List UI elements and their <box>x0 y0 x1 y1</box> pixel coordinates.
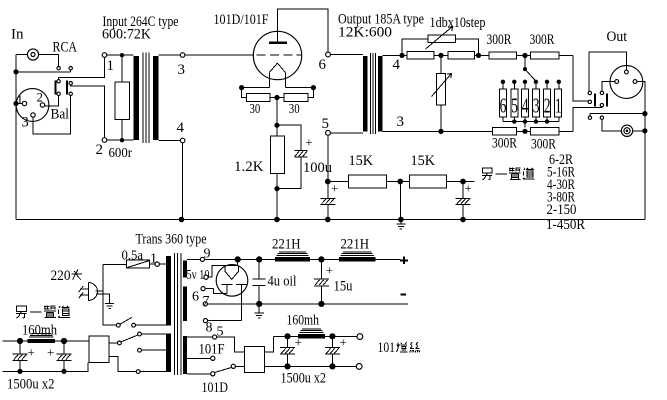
label impedance 3-80R <box>547 190 575 206</box>
wire S1 f to XLR pin3 <box>33 96 71 135</box>
label 30 left <box>250 102 261 117</box>
resistor tap R6 <box>499 89 506 117</box>
junction B+ node pin5 <box>325 179 331 185</box>
switch S1 contact d <box>69 82 72 85</box>
svg-text:300R: 300R <box>487 32 512 48</box>
svg-text:+: + <box>47 345 54 360</box>
wire plug to mains switch <box>103 291 117 325</box>
label T1 Input 264C type <box>103 14 179 30</box>
resistor hum balance 30 left <box>246 94 270 102</box>
resistor tap R5 <box>511 89 518 117</box>
label 15K right <box>411 153 436 169</box>
label T2 pin3 <box>397 114 405 130</box>
wire T1 pin3 to V1 grid <box>185 54 254 56</box>
wire PT pin9 <box>187 258 200 260</box>
junction 300R bottom mid <box>522 129 527 134</box>
PT bottom tap terminal <box>211 372 215 376</box>
label T1 pin1 <box>107 58 115 74</box>
PT pin10 terminal <box>204 275 208 279</box>
svg-text:Bal: Bal <box>51 107 70 123</box>
switch S1 contact f <box>69 92 72 95</box>
tap stubs <box>503 82 559 89</box>
junction C9 bottom <box>61 369 66 374</box>
svg-text:1dbx10step: 1dbx10step <box>430 15 486 31</box>
svg-text:300R: 300R <box>531 137 556 153</box>
transformer PT core <box>174 253 180 375</box>
wire B+ out <box>375 258 400 260</box>
switch S3 contact b <box>600 116 603 119</box>
junction 600r bottom <box>120 138 124 142</box>
wire J3 right pin to right rail <box>637 82 645 220</box>
label 101 filament <box>378 340 420 356</box>
label other channel mid <box>482 168 534 180</box>
svg-text:221H: 221H <box>341 237 370 253</box>
wire bypass top <box>402 39 479 56</box>
label PT pin7 <box>203 294 210 309</box>
T1 pin4 terminal <box>180 138 185 143</box>
transformer PT secondary HV winding <box>183 287 187 322</box>
wire filament left to R hum1 <box>242 88 247 98</box>
PT pin5 terminal <box>213 335 217 339</box>
svg-text:101: 101 <box>378 340 396 356</box>
svg-text:+: + <box>340 335 347 350</box>
label impedance 5-16R <box>547 165 575 181</box>
label 300R top-left <box>487 32 512 48</box>
svg-text:30: 30 <box>250 102 261 117</box>
label other channel bottom <box>16 306 70 319</box>
junction mid series <box>438 53 443 58</box>
junction attenuator out top <box>476 53 481 58</box>
svg-text:600:72K: 600:72K <box>102 27 151 43</box>
wire 0V rail <box>207 303 407 305</box>
PT pin6 terminal <box>201 287 205 291</box>
junction C6 bottom <box>284 363 290 369</box>
label J2 pin1 <box>17 92 24 107</box>
wire T1 pin2 to primary <box>107 139 134 141</box>
choke L2 221H <box>339 252 375 262</box>
label impedance 2-150 <box>547 202 577 218</box>
label + C8 <box>28 345 35 360</box>
junction hum center <box>274 95 279 100</box>
svg-text:12K:600: 12K:600 <box>338 25 392 41</box>
svg-text:In: In <box>11 27 24 43</box>
svg-text:1500u x2: 1500u x2 <box>7 377 55 393</box>
wire fil plus rail <box>288 335 358 337</box>
wire to C cathode 100u <box>277 125 301 150</box>
label PT pin6 <box>192 290 199 305</box>
fuse F1 0.5a <box>103 260 155 268</box>
svg-text:6: 6 <box>192 290 199 305</box>
resistor tap R4 <box>522 89 529 117</box>
switch S5 tap select blade <box>215 367 232 372</box>
junction C5 bottom <box>318 301 324 307</box>
svg-text:2: 2 <box>37 90 44 105</box>
switch S2 contact d <box>600 91 603 94</box>
wire tap bus to bottom row <box>524 122 526 128</box>
wire RCA to switch S1 <box>39 55 59 67</box>
wire 15K mid <box>386 181 409 183</box>
junction bus C3 <box>460 217 466 223</box>
label 160mh left <box>22 323 58 339</box>
wire PT bottom tap <box>187 373 211 375</box>
transformer PT secondary 5v winding <box>183 261 187 278</box>
junction cathode node <box>274 123 279 128</box>
label RCA <box>53 40 78 56</box>
terminal aux bottom <box>136 370 140 374</box>
PT pin9 terminal <box>200 257 204 261</box>
wire B+ rail <box>205 258 276 260</box>
svg-text:1: 1 <box>150 252 157 267</box>
wire BR2 minus rail <box>3 363 88 372</box>
transformer T1 core <box>143 53 149 144</box>
connector J2 XLR balanced input <box>16 89 49 122</box>
transformer T1 primary winding <box>134 56 140 140</box>
label B+ plus <box>400 257 408 265</box>
wire T1 pin4 to ground bus <box>182 143 184 220</box>
svg-text:2: 2 <box>544 93 551 117</box>
junction attenuator in top <box>399 53 404 58</box>
capacitor C8 1500u <box>13 341 28 371</box>
wire 15K left drop <box>399 182 401 220</box>
label PT pin9 <box>204 247 211 262</box>
label T2 Output 185A type <box>338 12 424 28</box>
label 101D <box>202 380 229 396</box>
label 100u <box>303 160 332 176</box>
V2 filament shield <box>225 259 239 279</box>
wire BR2 in top <box>109 342 118 344</box>
wire hum center down <box>276 98 278 126</box>
capacitor C7 1500u <box>325 336 340 366</box>
wire V2 plate right to pin8 <box>208 320 242 322</box>
svg-text:1: 1 <box>107 58 115 74</box>
junction C6 top <box>284 333 290 339</box>
switch S1 contact c <box>57 80 60 83</box>
wire 300R bottom-right out <box>559 130 573 132</box>
svg-text:300R: 300R <box>530 32 555 48</box>
J3 pin top <box>625 70 629 74</box>
wire filament bar left <box>242 87 270 89</box>
label impedance 1-450R <box>546 217 585 233</box>
V2 plate right <box>236 284 247 320</box>
PT pin8 terminal <box>203 319 207 323</box>
svg-text:101F: 101F <box>199 342 225 358</box>
svg-text:+: + <box>305 134 312 149</box>
wire filament right to R hum2 <box>308 88 314 98</box>
svg-text:RCA: RCA <box>53 40 78 56</box>
wire J4 to right rail <box>633 130 645 132</box>
resistor Ra series <box>402 52 434 59</box>
wire S1 e to XLR pin2 <box>45 96 59 106</box>
label T1 pin4 <box>177 120 185 136</box>
wire S1 d to transformer T1 pin2 <box>71 85 105 138</box>
wire plug ground stub <box>96 294 110 304</box>
connector J4 RCA output jack <box>621 125 632 136</box>
switch S2 pole bars <box>594 93 608 106</box>
label 1500u x2 left <box>7 377 55 393</box>
wire PT pin5 tap <box>187 336 212 338</box>
label 101F <box>199 342 225 358</box>
capacitor C6 1500u <box>280 336 295 366</box>
label 30 right <box>289 102 300 117</box>
junction bus C2 <box>325 217 331 223</box>
svg-text:8: 8 <box>206 321 213 336</box>
transformer T2 primary winding <box>363 56 368 132</box>
label 600r <box>109 146 133 161</box>
svg-text:101D: 101D <box>202 380 229 396</box>
J3 pin left <box>615 80 619 84</box>
resistor R 15K right <box>409 175 446 188</box>
svg-text:30: 30 <box>289 102 300 117</box>
svg-text:3: 3 <box>397 114 405 130</box>
wire plug to fuse <box>96 265 103 292</box>
junction 15K mid <box>397 179 403 185</box>
label tap digit 5 <box>511 93 518 117</box>
switch S1 contact a <box>57 67 60 70</box>
label 300R bottom-left <box>492 136 517 152</box>
wire T1 secondary to pin3 <box>158 54 180 56</box>
wire S4 to PT primary <box>136 324 167 326</box>
label + C9 <box>47 345 54 360</box>
wire T2 secondary top <box>383 54 402 56</box>
resistor R 15K left <box>328 175 387 188</box>
wire T2 pin5 down to B+ node <box>327 135 329 181</box>
label 220V mains <box>51 268 83 284</box>
switch S3 contact a <box>588 114 591 120</box>
label tap digit 3 <box>533 93 540 117</box>
V1 plate <box>269 42 287 44</box>
svg-text:5: 5 <box>511 93 518 117</box>
junction left rail at XLR pin1 <box>13 101 18 106</box>
wire aux bottom to winding <box>140 371 166 373</box>
rheostat RV2 vertical <box>432 55 452 131</box>
tube V2 rectifier envelope <box>216 265 248 297</box>
connector J1 RCA input jack <box>27 49 38 60</box>
junction C4 bottom <box>256 301 262 307</box>
label 300R top-right <box>530 32 555 48</box>
transformer T1 secondary winding <box>153 56 159 140</box>
wire fuse to PT <box>159 263 166 265</box>
svg-text:6: 6 <box>319 57 327 73</box>
ground symbol bus <box>396 220 405 230</box>
resistor hum balance 30 right <box>284 94 308 102</box>
label T2 pin6 <box>319 57 327 73</box>
svg-text:+: + <box>28 345 35 360</box>
svg-text:5: 5 <box>322 116 330 132</box>
wire to 300R top-left <box>479 54 490 56</box>
transformer PT aux winding left <box>166 334 171 373</box>
label T1 600:72K <box>102 27 151 43</box>
label 1.2K <box>234 159 264 175</box>
svg-text:1: 1 <box>555 93 562 117</box>
wire V1 plate to T2 pin6 <box>278 9 329 52</box>
label Trans 360 type <box>136 232 207 248</box>
switch S2 contact b <box>600 103 603 106</box>
PT pin7 terminal <box>203 302 207 306</box>
svg-text:3: 3 <box>533 93 540 117</box>
switch S2 contact a <box>588 100 591 103</box>
node In label <box>11 27 24 43</box>
resistor R 300R bottom-left <box>493 128 517 135</box>
svg-text:2: 2 <box>96 142 104 158</box>
label + C1 <box>305 134 312 149</box>
switch S4 mains <box>116 317 135 327</box>
wire T2 pin5 to primary <box>330 132 363 134</box>
wire V2 plate left to pin6 <box>205 289 227 294</box>
svg-text:4: 4 <box>393 57 401 73</box>
J3 pin right <box>633 80 637 84</box>
tap selector blade <box>523 56 536 81</box>
junction J4 right rail <box>642 128 647 133</box>
wire PT pin10 to filament <box>208 266 225 278</box>
label T1 pin2 <box>96 142 104 158</box>
wire 15K right tail <box>447 181 475 183</box>
svg-text:15K: 15K <box>349 153 374 169</box>
J2 pin3 <box>31 113 35 117</box>
label + C7 <box>340 335 347 350</box>
junction bus cathode <box>274 217 280 223</box>
junction C4 top <box>256 256 262 262</box>
junction C9 top <box>61 338 67 344</box>
capacitor C3 decouple right <box>456 182 471 220</box>
capacitor C2 decouple left <box>320 182 335 220</box>
wire T1 secondary to pin4 <box>158 140 180 142</box>
junction bus T1 <box>179 217 185 223</box>
junction cathode bottom <box>274 186 279 191</box>
wire C1 bottom <box>277 157 301 188</box>
label 1dbx10step <box>430 15 486 31</box>
resistor R cathode 1.2K <box>271 125 285 188</box>
wire left input vertical <box>15 55 17 220</box>
junction 15K right <box>460 179 466 185</box>
junction C7 top <box>329 333 335 339</box>
wire 300R top mid <box>517 55 531 57</box>
rectifier BR1 box <box>245 346 265 372</box>
choke L1 221H <box>275 252 310 262</box>
wire hum center <box>270 97 284 99</box>
switch S2 contact c <box>588 91 591 94</box>
svg-text:+: + <box>331 181 338 196</box>
label Out <box>607 29 628 45</box>
svg-text:4: 4 <box>177 120 185 136</box>
switch S1 contact e <box>57 92 60 95</box>
wire hot to switch S2 <box>573 56 588 101</box>
wire S6 101F to winding <box>141 333 166 335</box>
label T1 pin3 <box>178 62 186 78</box>
label 4u oil <box>268 274 297 290</box>
resistor R 300R bottom-right <box>531 128 559 135</box>
transformer PT primary winding <box>166 256 171 326</box>
label 15u <box>334 279 353 295</box>
label tap digit 4 <box>522 93 529 117</box>
svg-text:4u oil: 4u oil <box>268 274 297 290</box>
resistor R 300R top-right <box>531 52 559 59</box>
svg-text:220: 220 <box>51 268 71 284</box>
choke L4 160mh <box>28 334 56 344</box>
svg-text:15K: 15K <box>411 153 436 169</box>
ground symbol PSU <box>255 304 264 318</box>
ground symbol mains <box>105 304 114 309</box>
svg-text:15u: 15u <box>334 279 353 295</box>
svg-text:221H: 221H <box>272 237 301 253</box>
junction C8 bottom <box>17 369 22 374</box>
plug P1 mains <box>79 283 98 301</box>
V1 cathode filament <box>270 63 286 87</box>
junction C5 top <box>318 256 324 262</box>
label J2 pin2 <box>37 90 44 105</box>
V2 plate left <box>221 284 232 293</box>
svg-text:300R: 300R <box>492 136 517 152</box>
switch S1 pole bars <box>54 81 68 95</box>
junction rectifier anode <box>235 256 241 262</box>
svg-text:1500u x2: 1500u x2 <box>281 371 327 387</box>
label + C5 <box>326 263 333 277</box>
wire pin5 to rectifier box <box>217 337 245 352</box>
label 300R bottom-right <box>531 137 556 153</box>
junction C7 bottom <box>329 363 335 369</box>
label T2 12K:600 <box>338 25 392 41</box>
wire 300R top-right out <box>559 55 573 57</box>
svg-text:6: 6 <box>500 93 507 117</box>
wire left rail to S1 b <box>16 70 71 72</box>
PT mid tap terminal <box>211 356 215 360</box>
tap contact dots <box>501 80 561 84</box>
label impedance 4-30R <box>547 177 575 193</box>
junction filament left <box>239 85 244 90</box>
label PT pin1 <box>150 252 157 267</box>
junction 600r top <box>120 53 124 57</box>
capacitor C1 100u <box>295 151 308 158</box>
wire J3 left pin to S2 d <box>602 82 615 92</box>
wire BR2 plus rail <box>3 340 90 342</box>
svg-text:600r: 600r <box>109 146 133 161</box>
svg-text:3: 3 <box>178 62 186 78</box>
resistor Rb series <box>434 52 479 59</box>
switch S5 contact <box>231 364 235 368</box>
switch S6 contact pole <box>118 341 122 345</box>
terminal fil plus <box>357 334 363 340</box>
T1 pin3 terminal <box>180 53 185 58</box>
wire T1 pin1 to primary <box>107 54 134 56</box>
label + C3 <box>465 181 472 196</box>
label + C2 <box>331 181 338 196</box>
label impedance 6-2R <box>549 152 573 168</box>
T2 pin5 terminal <box>326 130 331 135</box>
wire PT mid tap <box>187 357 211 359</box>
svg-text:1-450R: 1-450R <box>546 217 585 233</box>
label 0.5a <box>122 249 144 264</box>
junction 300R top mid <box>522 53 527 58</box>
wire RCA to left rail <box>16 54 27 56</box>
wire S1 c to transformer T1 pin1 <box>59 57 105 79</box>
wire tap bottom bus <box>503 121 559 123</box>
wire cold to switch S2 <box>573 107 602 131</box>
wire ground bus <box>16 219 645 221</box>
label tap digit 2 <box>544 93 551 117</box>
switch S1 contact b <box>69 67 72 70</box>
switch S6 contact 101D <box>138 348 142 352</box>
T1 pin1 terminal <box>102 53 107 58</box>
svg-text:Trans 360 type: Trans 360 type <box>136 232 207 248</box>
choke L3 160mh <box>298 329 325 339</box>
svg-text:2-150: 2-150 <box>547 202 577 218</box>
label T2 pin4 <box>393 57 401 73</box>
junction left rail <box>13 69 18 74</box>
switch S6 contact 101F <box>138 332 142 336</box>
switch S6 blade <box>121 335 138 342</box>
junction RV2 bottom <box>438 129 443 134</box>
label B- minus <box>401 293 407 295</box>
rectifier BR2 box <box>89 336 109 363</box>
